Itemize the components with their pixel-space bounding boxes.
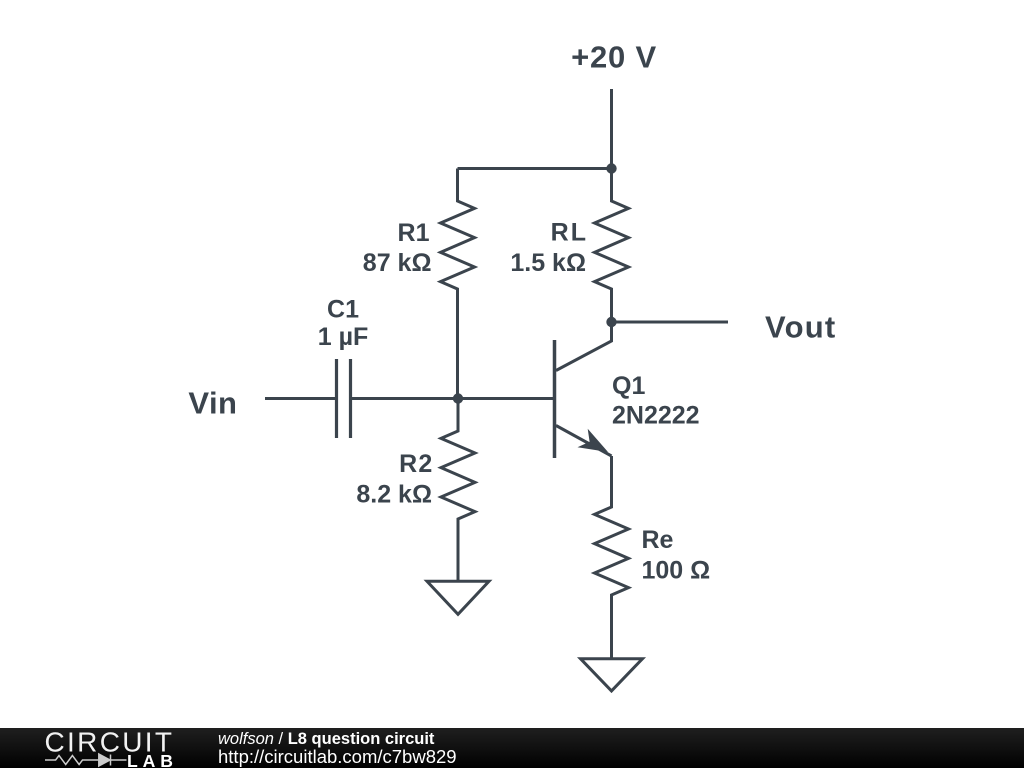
ground under R2 [427,581,489,614]
svg-text:1 µF: 1 µF [318,323,369,351]
junction top rail node [606,163,616,173]
wire power lead V+ [610,89,613,169]
wire base net [352,397,553,400]
capacitor C1 left plate [335,359,338,438]
svg-text:R1: R1 [398,219,430,247]
svg-text:Q1: Q1 [612,372,645,400]
svg-text:Vout: Vout [765,310,836,345]
transistor Q1 collector lead [556,322,612,371]
svg-text:RL: RL [551,219,588,247]
junction base node [453,393,463,403]
svg-text:Re: Re [642,526,674,554]
resistor RL [595,169,629,323]
svg-text:2N2222: 2N2222 [612,402,700,430]
svg-text:87 kΩ: 87 kΩ [363,249,432,277]
ground under Re [581,659,643,691]
svg-text:100 Ω: 100 Ω [642,556,711,584]
svg-text:http://circuitlab.com/c7bw829: http://circuitlab.com/c7bw829 [218,746,457,767]
wire top rail [458,167,612,170]
resistor R2 [441,399,475,582]
svg-text:C1: C1 [327,296,359,324]
capacitor C1 right plate [349,359,352,438]
transistor Q1 emitter [556,426,612,457]
transistor Q1 emitter arrow [578,429,609,452]
svg-text:Vin: Vin [188,386,237,421]
svg-text:R2: R2 [399,450,433,478]
junction collector node [606,317,616,327]
svg-text:8.2 kΩ: 8.2 kΩ [356,480,432,508]
svg-text:1.5 kΩ: 1.5 kΩ [510,249,586,277]
resistor R1 [441,169,475,399]
logo resistor-diode symbol [45,754,127,766]
wire Vin lead [265,397,336,400]
svg-text:+20 V: +20 V [571,40,657,75]
svg-text:LAB: LAB [127,751,173,768]
wire Vout lead [612,321,729,324]
resistor Re [595,456,629,659]
transistor Q1 base bar [553,340,557,458]
footer bar [0,728,1024,768]
